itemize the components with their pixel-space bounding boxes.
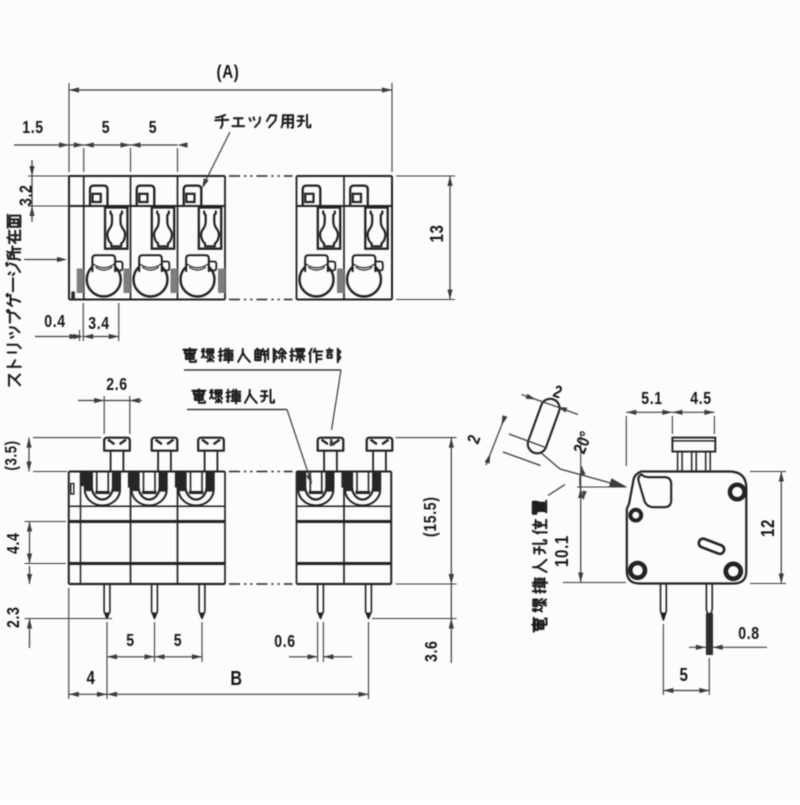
- svg-text:4: 4: [86, 667, 95, 688]
- svg-text:10.1: 10.1: [551, 535, 572, 567]
- svg-text:3.2: 3.2: [17, 185, 36, 206]
- svg-text:0.8: 0.8: [738, 625, 759, 644]
- svg-text:(3.5): (3.5): [3, 440, 21, 470]
- svg-text:0.4: 0.4: [44, 313, 65, 332]
- svg-text:5.1: 5.1: [641, 390, 662, 409]
- svg-text:(15.5): (15.5): [422, 496, 441, 537]
- svg-text:(A): (A): [217, 61, 240, 82]
- svg-text:3.6: 3.6: [423, 641, 442, 662]
- svg-text:B: B: [230, 666, 242, 689]
- svg-text:13: 13: [426, 224, 447, 242]
- svg-text:3.4: 3.4: [88, 315, 109, 334]
- svg-text:1.5: 1.5: [22, 119, 43, 138]
- svg-text:4.4: 4.4: [5, 533, 24, 554]
- svg-text:4.5: 4.5: [690, 390, 711, 409]
- svg-text:2.6: 2.6: [106, 376, 127, 395]
- svg-text:2.3: 2.3: [5, 607, 24, 628]
- svg-text:5: 5: [174, 632, 182, 651]
- svg-text:12: 12: [757, 519, 778, 537]
- svg-text:5: 5: [126, 632, 134, 651]
- svg-text:5: 5: [149, 119, 157, 138]
- svg-text:5: 5: [102, 119, 110, 138]
- svg-text:0.6: 0.6: [274, 633, 295, 652]
- svg-text:5: 5: [679, 664, 688, 685]
